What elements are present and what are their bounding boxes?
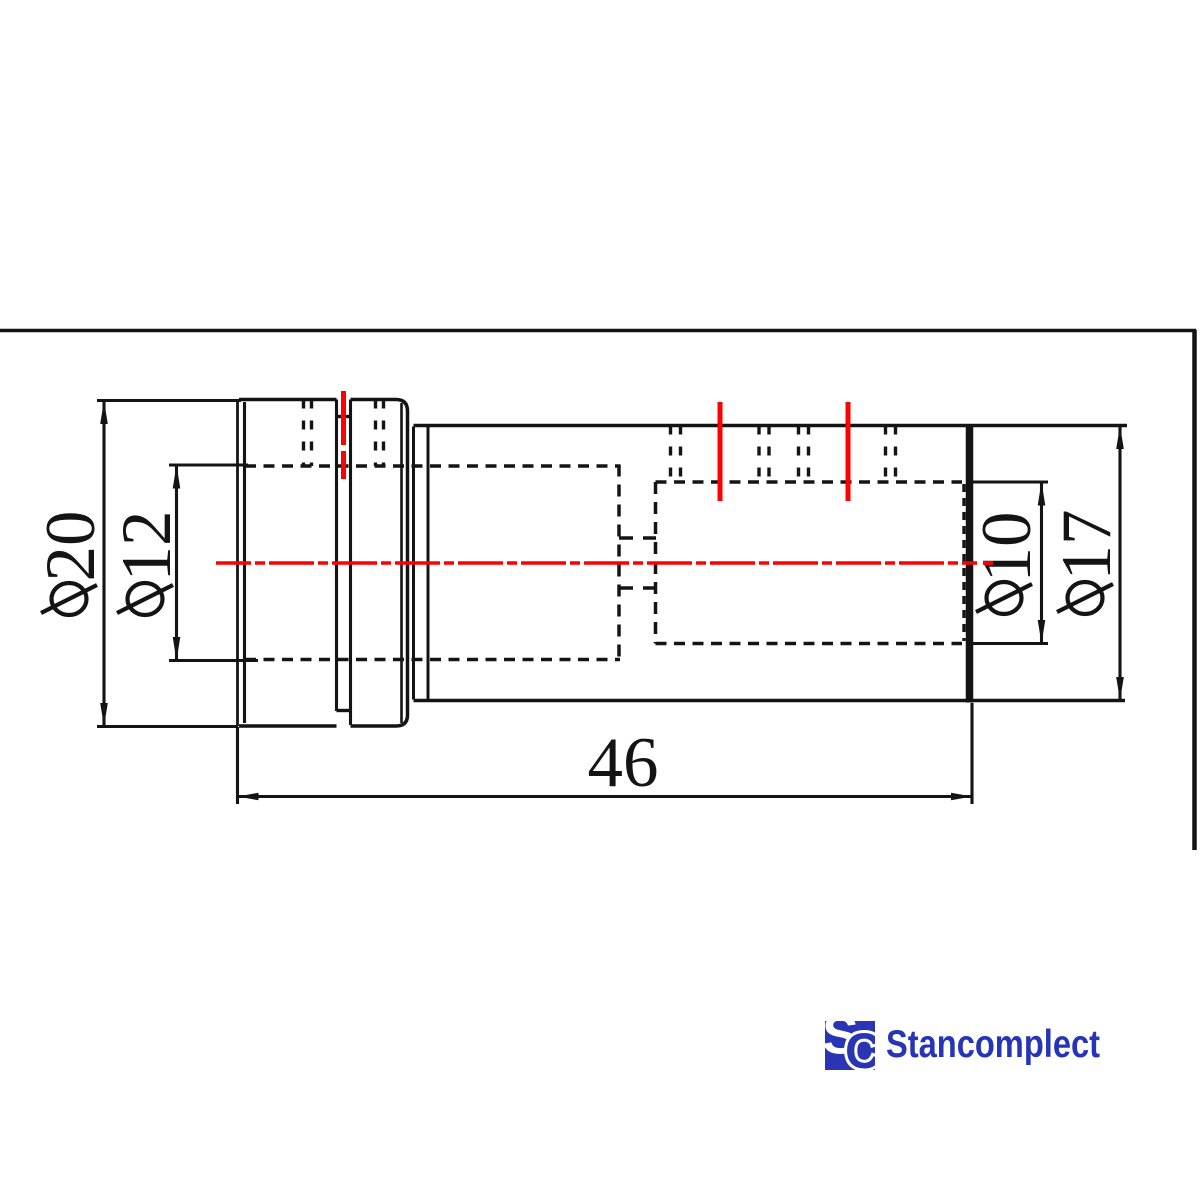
dimension Φ10 text [968,512,1046,615]
hidden keyway lines on shaft [671,426,896,483]
dimension 46 line with arrows [238,793,973,801]
red centerline end dash [983,561,993,565]
shaft end face thick line [966,424,974,703]
svg-text:10: 10 [968,512,1046,583]
hidden hole Φ10 top edge [656,480,963,484]
dimension Φ17 text [1048,510,1126,615]
top border line [0,329,1196,332]
hidden hole Φ12 bottom edge [245,658,620,662]
svg-text:20: 20 [32,511,110,582]
right border line [1192,330,1197,850]
red section line A [718,402,723,501]
shaft left collar outline (Φ20) [238,399,337,726]
dimension 46 extension lines [238,703,973,804]
svg-text:17: 17 [1048,510,1126,581]
hidden hole Φ12 top edge [245,464,620,468]
logo icon square [822,1004,881,1080]
svg-text:12: 12 [108,511,186,582]
dimension Φ17 line with arrows [1116,426,1124,701]
red centerline [216,561,977,565]
ring groove between collars [337,400,351,726]
dimension Φ12 text [108,511,186,616]
main shaft left face [427,425,430,701]
neck face line [412,427,415,700]
hidden hole Φ12 end [617,465,621,662]
red section line B [846,402,851,501]
dimension Φ10 extension lines [970,482,1048,644]
hidden hole Φ10 bottom edge [656,642,963,646]
main shaft top edge (extends to Φ17 dimension) [414,424,1128,427]
svg-text:Stancomplect: Stancomplect [886,1023,1100,1066]
hidden hole Φ10 left end [654,482,658,644]
dimension Φ20 line with arrows [100,401,108,727]
red section line on groove [341,391,346,479]
dimension Φ12 extension lines [169,465,258,661]
dimension Φ10 line with arrows [1038,482,1046,644]
dimension Φ20 text [32,511,110,616]
svg-text:46: 46 [588,724,659,802]
dimension Φ20 extension lines [97,401,241,727]
shaft second collar outline [351,400,408,727]
main shaft bottom edge (extends to Φ17 dimension) [414,699,1126,702]
hidden keyway lines on collars [304,400,384,467]
hidden cone transition marks [619,538,656,588]
dashed hole edge at end face [962,484,965,641]
dimension Φ12 line with arrows [173,465,181,661]
